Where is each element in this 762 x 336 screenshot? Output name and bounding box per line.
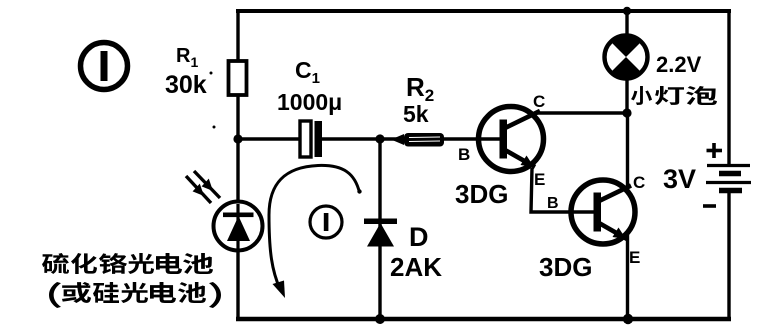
lamp 2.2V bulb [605,36,648,79]
wire: Q1 collector to lamp node [536,111,629,114]
node: junction emitter branch / ground rail [623,314,633,324]
node: junction left rail / C1 row [233,134,242,143]
wire: bottom ground rail [236,317,731,322]
svg-text:3V: 3V [663,164,696,194]
circled figure marker 1 (top-left) [81,43,128,90]
svg-text:E: E [629,248,640,267]
wire: top supply rail [236,9,731,13]
label: cadmium-sulfide photocell (line 1) [42,253,213,274]
node: junction top rail / lamp branch [623,7,631,15]
photocell body circle [214,202,263,251]
svg-text:30k: 30k [165,71,207,99]
light arrow 2 into photocell [194,171,220,198]
transistor Q1 (3DG) [478,107,544,172]
svg-text:B: B [458,145,470,164]
wire: right rail lower (battery - to ground) [727,191,730,321]
wire: node row from left rail to C1 [238,137,302,140]
wire: left rail (R1 / photocell branch) [236,9,239,319]
speck (scan noise) [210,72,213,75]
battery + terminal mark [707,143,723,158]
wire: lamp branch from top rail [625,11,628,113]
svg-text:5k: 5k [403,101,429,127]
svg-text:2.2V: 2.2V [656,52,702,77]
photocell anode triangle [227,216,250,241]
wire: lamp node down through Q2 collector/emitter to ground rail [626,113,629,319]
resistor R1 [229,61,247,95]
label: (or silicon photocell) (line 2) [49,282,221,308]
diode D anode triangle [367,223,394,247]
svg-text:1000μ: 1000μ [277,89,342,115]
wire: Q1 emitter down and over to Q2 base [531,168,576,212]
wire: C1 to node B / R2 [320,137,410,140]
capacitor C1 negative plate [315,121,323,157]
svg-text:E: E [534,170,545,189]
transistor Q2 (3DG) [571,180,635,244]
node: junction diode / ground rail [375,314,385,324]
capacitor C1 positive plate [300,121,311,157]
label: xiao deng pao (small lamp) [631,86,717,105]
photocell cathode bar [223,213,254,218]
diode D cathode bar [364,219,397,225]
battery 3V [706,166,751,191]
svg-text:C: C [533,92,545,111]
current loop arrow with circled 1 (center) [269,165,362,298]
wire: R2 to Q1 base [443,137,490,140]
node: junction C1 / diode branch [375,134,384,143]
photocell internal wire [236,204,239,249]
svg-text:2AK: 2AK [390,252,442,282]
battery - terminal mark [703,204,716,208]
light arrow 1 into photocell [186,176,211,203]
svg-text:C: C [633,173,645,192]
svg-text:3DG: 3DG [539,252,592,282]
svg-text:D: D [409,222,429,252]
resistor R2 [391,133,444,147]
wire: diode branch vertical [378,139,381,319]
svg-text:3DG: 3DG [455,179,508,209]
wire: right rail upper (to battery +) [727,9,730,165]
node: junction lamp / Q1 collector [622,108,631,117]
svg-text:B: B [547,195,559,212]
